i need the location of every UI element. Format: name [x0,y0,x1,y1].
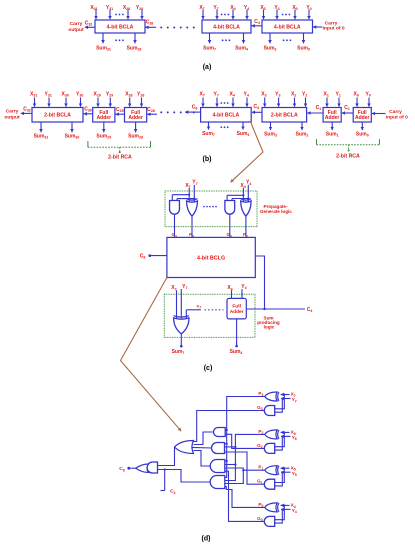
svg-text:X6: X6 [291,430,296,436]
svg-text:X2: X2 [291,92,296,98]
svg-text:4-bit BCLA: 4-bit BCLA [107,24,134,30]
svg-text:X7: X7 [171,285,176,291]
svg-text:Y6: Y6 [292,435,297,441]
svg-text:4-bit BCLA: 4-bit BCLA [213,24,240,30]
svg-text:Y7: Y7 [192,180,197,186]
svg-text:Sum3: Sum3 [264,46,277,52]
svg-text:Y5: Y5 [292,471,297,477]
svg-text:2-bit RCA: 2-bit RCA [108,155,132,161]
svg-text:Y31: Y31 [106,5,113,11]
svg-text:X29: X29 [94,92,101,98]
svg-text:Full: Full [232,304,241,310]
svg-text:Sum7: Sum7 [202,131,215,137]
svg-text:Sum4: Sum4 [235,46,248,52]
svg-text:4-bit BCLA: 4-bit BCLA [274,24,301,30]
svg-text:Y3: Y3 [275,92,280,98]
svg-text:Carry: Carry [70,21,83,27]
svg-text:Sum3: Sum3 [264,131,277,137]
svg-text:Sum4: Sum4 [230,349,243,355]
svg-text:C4: C4 [307,307,313,313]
svg-text:Adder: Adder [355,115,370,121]
svg-text:C8: C8 [140,253,146,259]
svg-text:X28: X28 [123,5,130,11]
svg-text:X4: X4 [230,92,235,98]
svg-text:Y4: Y4 [244,5,249,11]
svg-text:X1: X1 [324,92,329,98]
svg-text:2-bit BCLA: 2-bit BCLA [44,113,71,119]
svg-text:Y7: Y7 [292,397,297,403]
svg-text:Adder: Adder [97,115,112,121]
svg-text:Y3: Y3 [274,5,279,11]
svg-text:Sum0: Sum0 [356,131,369,137]
svg-text:Sum31: Sum31 [34,134,49,140]
svg-text:Sum30: Sum30 [65,134,80,140]
svg-text:(a): (a) [203,64,212,71]
svg-text:Y2: Y2 [302,92,307,98]
svg-text:C8: C8 [192,105,198,111]
svg-text:Carry: Carry [325,20,338,26]
svg-text:C32: C32 [23,107,31,113]
svg-text:C28: C28 [146,20,154,26]
svg-text:C1: C1 [344,105,350,111]
svg-text:C4: C4 [170,489,175,495]
svg-text:C4: C4 [254,19,260,25]
svg-text:Adder: Adder [325,115,340,121]
svg-text:Carry: Carry [6,109,19,115]
svg-text:X3: X3 [261,92,266,98]
svg-text:Sum7: Sum7 [172,349,185,355]
svg-text:C4: C4 [253,104,259,110]
svg-text:Y4: Y4 [244,92,249,98]
svg-text:X7: X7 [199,5,204,11]
svg-text:Y31: Y31 [45,92,52,98]
svg-text:C28: C28 [147,107,155,113]
svg-text:output: output [4,115,20,121]
svg-text:Y30: Y30 [76,92,83,98]
svg-text:X7: X7 [200,92,205,98]
svg-text:Sum28: Sum28 [127,46,142,52]
svg-text:c7: c7 [197,303,202,309]
svg-text:X3: X3 [260,5,265,11]
svg-text:C29: C29 [116,107,124,113]
svg-text:X0: X0 [354,92,359,98]
svg-text:input of 0: input of 0 [323,26,345,32]
svg-text:Carry: Carry [389,109,402,115]
svg-text:4-bit BCLG: 4-bit BCLG [197,255,225,261]
svg-text:Sum7: Sum7 [203,46,216,52]
svg-text:Sum1: Sum1 [326,131,339,137]
svg-text:X7: X7 [291,392,296,398]
svg-text:X30: X30 [62,92,69,98]
svg-text:Sum28: Sum28 [128,134,143,140]
svg-text:Y28: Y28 [137,92,144,98]
svg-text:Y7: Y7 [213,5,218,11]
svg-text:X7: X7 [185,183,190,189]
svg-text:Adder: Adder [230,309,244,315]
svg-text:Y0: Y0 [366,92,371,98]
svg-text:X5: X5 [291,465,296,471]
svg-text:Y28: Y28 [136,5,143,11]
svg-text:C30: C30 [84,107,92,113]
svg-text:input of 0: input of 0 [386,114,408,120]
svg-text:X0: X0 [292,5,297,11]
svg-text:X31: X31 [30,92,37,98]
svg-text:(b): (b) [203,156,212,163]
svg-text:Sum29: Sum29 [96,134,111,140]
svg-text:C2: C2 [316,105,322,111]
svg-text:Y29: Y29 [106,92,113,98]
svg-text:X4: X4 [291,503,296,509]
svg-text:Y1: Y1 [336,92,341,98]
svg-text:2-bit RCA: 2-bit RCA [336,154,360,160]
svg-text:(d): (d) [202,536,211,543]
svg-text:Y7: Y7 [214,92,219,98]
svg-text:4-bit BCLA: 4-bit BCLA [212,113,239,119]
svg-text:Y4: Y4 [292,508,297,514]
svg-text:logic: logic [264,324,275,329]
svg-text:X28: X28 [125,92,132,98]
svg-text:Sum31: Sum31 [96,46,111,52]
svg-text:C8: C8 [119,466,124,472]
svg-text:Sum0: Sum0 [297,46,310,52]
svg-text:Y0: Y0 [306,5,311,11]
svg-text:X4: X4 [230,5,235,11]
svg-text:C32: C32 [85,21,93,27]
svg-text:Sum4: Sum4 [237,131,250,137]
svg-text:X31: X31 [90,5,97,11]
svg-text:Adder: Adder [128,115,143,121]
svg-text:output: output [68,27,84,33]
svg-text:(c): (c) [204,365,213,372]
svg-text:Sum2: Sum2 [296,131,309,137]
svg-text:Generate logic: Generate logic [260,209,292,214]
svg-text:Y7: Y7 [182,284,187,290]
svg-text:2-bit BCLA: 2-bit BCLA [271,113,298,119]
